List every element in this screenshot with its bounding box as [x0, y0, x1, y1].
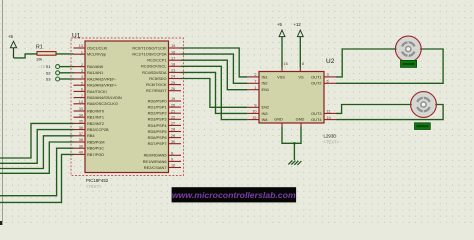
svg-text:RB3/CCP2B: RB3/CCP2B [87, 127, 109, 132]
wire OUT4 to M2 right [336, 105, 443, 120]
svg-text:39: 39 [79, 144, 83, 148]
wire RB3 to left edge [0, 130, 74, 164]
svg-text:PIC18F452: PIC18F452 [86, 178, 109, 183]
svg-text:15: 15 [252, 116, 256, 120]
svg-text:8: 8 [302, 62, 304, 66]
logic state S1 terminal [56, 65, 60, 69]
svg-text:1: 1 [81, 50, 83, 54]
svg-text:RB4: RB4 [87, 133, 95, 138]
svg-text:28: 28 [171, 128, 175, 132]
U1 pin 23 stub [169, 71, 182, 73]
svg-text:RA1/AN1: RA1/AN1 [87, 70, 103, 75]
U2 pin 11 stub [324, 112, 336, 114]
U1 pin 2 stub [74, 66, 86, 68]
U1 pin 27 stub [169, 124, 182, 126]
svg-text:11: 11 [327, 110, 331, 114]
motor M1 label box [401, 60, 417, 67]
U1 pin 33 stub [74, 110, 86, 112]
svg-text:RC5/SDO: RC5/SDO [149, 76, 166, 81]
power +5 symbol (U2) [279, 30, 285, 36]
svg-text:36: 36 [79, 126, 83, 130]
svg-text:6: 6 [81, 88, 83, 92]
svg-text:<TEXT>: <TEXT> [86, 184, 102, 189]
svg-text:RB2/INT2: RB2/INT2 [87, 121, 104, 126]
svg-text:RA5/AN4/SS/LVDIN: RA5/AN4/SS/LVDIN [87, 95, 122, 100]
U1 pin 5 stub [74, 84, 86, 86]
svg-text:IN1: IN1 [262, 74, 268, 79]
svg-text:40: 40 [79, 151, 83, 155]
svg-text:OUT4: OUT4 [311, 117, 322, 122]
svg-text:S3: S3 [46, 77, 51, 82]
U1 pin 38 stub [74, 141, 86, 143]
U1 pin 35 stub [74, 122, 86, 124]
svg-text:+5: +5 [8, 34, 14, 39]
svg-text:23: 23 [171, 69, 175, 73]
svg-text:www.microcontrollerslab.com: www.microcontrollerslab.com [172, 190, 296, 200]
wire RB2 to left edge [0, 123, 74, 158]
U1 body [85, 41, 169, 173]
svg-text:OSC1/CLKI: OSC1/CLKI [87, 45, 107, 50]
svg-text:24: 24 [171, 75, 175, 79]
svg-text:RD0/PSP0: RD0/PSP0 [148, 98, 168, 103]
svg-text:+12: +12 [294, 22, 302, 27]
svg-text:RA2/AN2/VREF-: RA2/AN2/VREF- [87, 76, 117, 81]
svg-text:9: 9 [171, 158, 173, 162]
svg-text:9: 9 [254, 104, 256, 108]
U2 pin 15 stub [247, 119, 259, 121]
banner box [172, 187, 297, 202]
svg-text:4: 4 [81, 75, 83, 79]
power +5 symbol (left) [10, 41, 16, 47]
wire GND join [282, 127, 301, 143]
U1 pin 39 stub [74, 147, 86, 149]
wire OUT1 to M1 left [336, 49, 395, 77]
svg-text:OUT1: OUT1 [311, 74, 321, 79]
U2 pin 1 stub [247, 89, 259, 91]
svg-text:33: 33 [79, 107, 83, 111]
svg-text:14: 14 [79, 100, 83, 104]
wire RC3 to IN4 [181, 66, 247, 119]
svg-text:RA4/T0CKI: RA4/T0CKI [87, 89, 107, 94]
svg-text:RB7/PGD: RB7/PGD [87, 152, 104, 157]
U1 pin 29 stub [169, 137, 182, 139]
svg-text:7: 7 [254, 80, 256, 84]
svg-text:34: 34 [79, 113, 83, 117]
svg-text:13: 13 [79, 44, 83, 48]
svg-text:RD5/PSP5: RD5/PSP5 [148, 129, 167, 134]
svg-text:<TE: <TE [39, 65, 46, 69]
svg-text:S2: S2 [46, 70, 51, 75]
svg-text:16: 16 [284, 62, 288, 66]
U1 pin 6 stub [74, 90, 86, 92]
svg-text:RB0/INT0: RB0/INT0 [87, 108, 105, 113]
svg-text:RC4/SDI/SDA: RC4/SDI/SDA [142, 70, 167, 75]
svg-text:2: 2 [81, 63, 83, 67]
svg-text:OUT3: OUT3 [311, 111, 321, 116]
U2 pin 7 stub [247, 82, 259, 84]
svg-text:3: 3 [81, 69, 83, 73]
svg-text:22: 22 [171, 116, 175, 120]
U1 pin 20 stub [169, 106, 182, 108]
U1 pin 36 stub [74, 129, 86, 131]
U1 pin 22 stub [169, 118, 182, 120]
svg-text:19: 19 [171, 97, 175, 101]
U1 dashed selection box [71, 38, 184, 176]
wire RB4 to left edge [0, 136, 74, 169]
svg-text:35: 35 [79, 120, 83, 124]
svg-text:RD2/PSP2: RD2/PSP2 [148, 111, 167, 116]
U1 pin 4 stub [74, 78, 86, 80]
U1 pin 3 stub [74, 72, 86, 74]
svg-text:15: 15 [171, 44, 175, 48]
svg-text:38: 38 [79, 138, 83, 142]
svg-text:EN2: EN2 [262, 105, 270, 110]
ground [288, 160, 301, 165]
logic state S2 terminal [56, 71, 60, 75]
U2 pin 14 stub [324, 119, 336, 121]
U1 pin 24 stub [169, 78, 182, 80]
svg-text:RD7/PSP7: RD7/PSP7 [148, 141, 167, 146]
wire OUT2 to M1 right [336, 49, 443, 83]
svg-text:RC3/SCK/SCL: RC3/SCK/SCL [141, 64, 167, 69]
wire RB7 to left edge [0, 154, 74, 202]
U2 VSS stub pin16 [281, 68, 283, 72]
U1 pin 26 stub [169, 90, 182, 92]
U1 pin 28 stub [169, 131, 182, 133]
U1 pin 15 stub [169, 47, 182, 49]
junction dot [293, 142, 296, 145]
wire +5 to R1 [14, 54, 38, 58]
U1 pin 21 stub [169, 112, 182, 114]
U2 pin 10 stub [247, 112, 259, 114]
svg-text:RE0/RD/AN5: RE0/RD/AN5 [144, 153, 167, 158]
svg-text:GND: GND [274, 117, 283, 122]
svg-text:10: 10 [171, 164, 175, 168]
svg-text:21: 21 [171, 109, 175, 113]
svg-text:RA6/OSC2/CLKO: RA6/OSC2/CLKO [87, 101, 118, 106]
U2 VS stub pin8 [299, 68, 301, 72]
wire RC5 to EN2 [181, 79, 247, 108]
wire RC2 to EN1 [181, 60, 247, 89]
U1 pin 18 stub [169, 65, 182, 67]
svg-text:RC1/T1OSI/CCP2A: RC1/T1OSI/CCP2A [132, 52, 167, 57]
svg-text:IN4: IN4 [262, 117, 269, 122]
svg-text:RD3/PSP3: RD3/PSP3 [148, 117, 167, 122]
U1 pin 10 stub [169, 167, 182, 169]
U1 pin 8 stub [169, 154, 182, 156]
svg-text:MCLR/Vpp: MCLR/Vpp [87, 52, 106, 57]
svg-text:16: 16 [171, 50, 175, 54]
svg-text:8: 8 [171, 152, 173, 156]
U1 pin 1 stub [74, 53, 86, 55]
svg-text:RE2/CS/AN7: RE2/CS/AN7 [144, 165, 167, 170]
wire RC1 to IN2 [181, 54, 247, 83]
svg-text:5: 5 [81, 81, 83, 85]
svg-text:RA3/AN3/VREF+: RA3/AN3/VREF+ [87, 83, 118, 88]
svg-text:RC7/RX/DT: RC7/RX/DT [146, 88, 167, 93]
U2 body [259, 72, 324, 124]
U2 pin 3 stub [324, 76, 336, 78]
svg-text:30: 30 [171, 140, 175, 144]
svg-text:17: 17 [171, 56, 175, 60]
U1 pin 40 stub [74, 153, 86, 155]
svg-text:27: 27 [171, 122, 175, 126]
svg-text:37: 37 [79, 132, 83, 136]
svg-text:29: 29 [171, 134, 175, 138]
svg-text:S1: S1 [46, 64, 51, 69]
svg-text:RB1/INT1: RB1/INT1 [87, 115, 104, 120]
svg-text:R1: R1 [36, 44, 43, 50]
U1 pin 9 stub [169, 160, 182, 162]
U1 pin 34 stub [74, 116, 86, 118]
wire S2 to RA1 [60, 72, 74, 74]
U2 pin 9 stub [247, 106, 259, 108]
svg-text:U1: U1 [72, 33, 81, 40]
svg-text:RC2/CCP1: RC2/CCP1 [147, 58, 166, 63]
svg-text:10: 10 [252, 110, 256, 114]
U1 pin 7 stub [74, 97, 86, 99]
wire RB6 to left edge [0, 148, 74, 196]
svg-text:3: 3 [327, 73, 329, 77]
wire S3 to RA2 [60, 78, 74, 80]
svg-text:IN3: IN3 [262, 111, 268, 116]
U2 pin 2 stub [247, 76, 259, 78]
wire +5 to VSS [281, 37, 283, 68]
wire +12 to VS [299, 37, 301, 68]
svg-text:RB6/PGC: RB6/PGC [87, 146, 104, 151]
svg-text:RD1/PSP1: RD1/PSP1 [148, 105, 167, 110]
svg-text:7: 7 [81, 94, 83, 98]
logic state S3 terminal [56, 77, 60, 81]
U2 GND stub right [300, 123, 302, 127]
svg-text:25: 25 [171, 81, 175, 85]
svg-text:RC0/T1OSO/T1CKI: RC0/T1OSO/T1CKI [132, 45, 166, 50]
svg-text:14: 14 [327, 116, 331, 120]
U1 pin 16 stub [169, 53, 182, 55]
svg-text:2: 2 [254, 73, 256, 77]
wire S1 to RA0 [60, 66, 74, 68]
wire OUT3 to M2 left [336, 105, 411, 114]
wire RC0 to IN1 [181, 48, 247, 77]
svg-text:18: 18 [171, 63, 175, 67]
wire R1 to MCLR [56, 53, 74, 55]
svg-text:GND: GND [296, 117, 305, 122]
svg-text:VS: VS [298, 74, 304, 79]
svg-text:1: 1 [254, 86, 256, 90]
svg-text:EN1: EN1 [262, 87, 270, 92]
U1 pin 17 stub [169, 59, 182, 61]
wire RB5 to left edge [0, 142, 74, 173]
svg-text:+5: +5 [277, 22, 283, 27]
svg-text:OUT2: OUT2 [311, 81, 321, 86]
svg-text:RD4/PSP4: RD4/PSP4 [148, 123, 168, 128]
svg-text:U2: U2 [326, 58, 335, 65]
svg-text:6: 6 [327, 80, 329, 84]
svg-text:VSS: VSS [277, 74, 285, 79]
U1 pin 13 stub [74, 47, 86, 49]
U2 pin 6 stub [324, 82, 336, 84]
power +12 symbol [297, 30, 303, 36]
svg-text:<TEXT>: <TEXT> [324, 140, 340, 145]
motor M2 [410, 92, 438, 118]
U1 pin 19 stub [169, 100, 182, 102]
U1 pin 14 stub [74, 103, 86, 105]
svg-text:10k: 10k [36, 58, 42, 62]
wire to ground [293, 143, 295, 160]
svg-text:RC6/TX/CK: RC6/TX/CK [146, 82, 167, 87]
U2 GND stub left [281, 123, 283, 127]
svg-text:L293D: L293D [324, 134, 337, 139]
U1 pin 37 stub [74, 135, 86, 137]
wire RC4 to IN3 [181, 72, 247, 113]
svg-text:RD6/PSP6: RD6/PSP6 [148, 135, 167, 140]
svg-text:RE1/WR/AN6: RE1/WR/AN6 [143, 159, 167, 164]
svg-text:RB5/PGM: RB5/PGM [87, 139, 105, 144]
motor M2 label box [415, 123, 431, 130]
svg-text:IN2: IN2 [262, 81, 268, 86]
svg-text:20: 20 [171, 103, 175, 107]
svg-text:26: 26 [171, 87, 175, 91]
U1 pin 25 stub [169, 84, 182, 86]
svg-text:RA0/AN0: RA0/AN0 [87, 64, 104, 69]
U1 pin 30 stub [169, 143, 182, 145]
resistor R1 [37, 52, 56, 56]
motor M1 [394, 36, 422, 62]
